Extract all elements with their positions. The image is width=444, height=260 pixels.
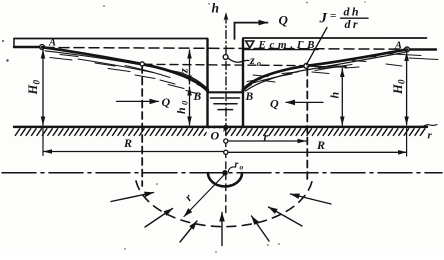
O label background (207, 129, 224, 141)
svg-text:r: r (264, 130, 269, 144)
R dimension right (229, 151, 407, 153)
shading dash left 2b (108, 69, 130, 72)
hatching (aquiclude) (15, 128, 425, 136)
curve-casing junction right (243, 84, 251, 90)
shading dash left 1 (60, 55, 78, 57)
plan centerline dash-dot (2, 172, 442, 174)
svg-text:R: R (123, 136, 132, 150)
svg-text:Q: Q (270, 97, 279, 111)
well casing left (206, 39, 208, 127)
shading dash left 3c (186, 91, 198, 95)
echo curve right 3 (315, 65, 352, 71)
depression curve left (42, 47, 208, 91)
R extension left (42, 129, 44, 156)
nabla marker (246, 41, 254, 48)
svg-text:=: = (330, 10, 336, 22)
curve point circle right (304, 64, 309, 69)
svg-text:J: J (319, 11, 328, 27)
svg-text:0: 0 (32, 80, 42, 85)
flow arrow A5 (252, 216, 270, 241)
chord dashed level (144, 64, 304, 65)
ground break squiggle (423, 125, 437, 127)
shading dash right B2 (263, 81, 275, 83)
z dimension line (189, 50, 191, 84)
shading dash right A1 (384, 54, 421, 56)
static water level solid right (409, 48, 437, 50)
well water shading row3 (218, 109, 233, 111)
shading dash right A3 (386, 64, 402, 66)
svg-text:o: o (240, 163, 244, 172)
shading dash left 3 (160, 80, 175, 84)
R extension right (406, 128, 408, 156)
svg-text:Q: Q (279, 13, 289, 28)
shading dash mid right (312, 72, 329, 74)
static level dashed line (Ест.ГВ) (44, 48, 407, 50)
svg-text:A: A (394, 41, 402, 52)
curve point circle left (140, 62, 144, 66)
H0 left dimension (42, 50, 44, 125)
well water shading row1b (227, 97, 240, 99)
node A right circle (405, 47, 410, 52)
leader J formula (307, 28, 328, 65)
well water shading row2 (214, 103, 237, 105)
svg-text:o: o (257, 59, 261, 68)
svg-text:r: r (183, 192, 195, 204)
echo curve right 1 (246, 52, 406, 91)
svg-text:O: O (211, 129, 220, 143)
z0 circle (223, 55, 228, 60)
R dimension left (44, 151, 224, 153)
svg-text:h: h (328, 92, 342, 99)
ground surface line right (243, 37, 427, 39)
shading dash right m4 (318, 67, 338, 69)
flow arrow A2 (145, 209, 173, 228)
R dim circle on axis (224, 150, 228, 154)
static water level solid left (14, 46, 40, 48)
well plan semicircle (208, 173, 242, 186)
svg-text:B: B (245, 91, 254, 103)
axis below ground dashed (225, 129, 227, 213)
well plan dot (222, 170, 228, 176)
shading dash left 2c (135, 75, 155, 79)
Q left arrow (117, 100, 159, 102)
h axis dash-dot (225, 15, 227, 127)
h axis arrowhead (224, 12, 229, 21)
shading dash right B1 (253, 75, 268, 77)
axis ground dot (223, 125, 228, 130)
shading dash right B1b (247, 79, 261, 82)
r' dim circle on axis (224, 139, 228, 143)
flow arrow A1 (111, 193, 154, 202)
flow arrow A4 (221, 213, 223, 246)
shading dash right B1c (282, 72, 298, 74)
shading dash mid right 3 (352, 61, 366, 62)
shading dash left 3b (168, 85, 184, 89)
svg-text:0: 0 (397, 79, 407, 84)
dashed vertical right (306, 69, 308, 181)
radius r arrow (184, 175, 225, 217)
Est.GV underline (244, 49, 319, 51)
H0 right dimension (406, 53, 408, 125)
well water shading row1a (211, 97, 225, 99)
svg-text:r: r (235, 160, 239, 171)
flow arrow A3 (180, 221, 197, 242)
depression curve right (243, 50, 407, 91)
svg-text:h: h (212, 1, 220, 16)
z0 leader (228, 58, 249, 62)
r' dimension line (229, 140, 307, 142)
svg-text:r: r (428, 130, 433, 142)
h dimension extension (307, 66, 347, 67)
r0 hook leader (229, 167, 235, 172)
h dimension line (341, 69, 343, 126)
echo curve left 1 (45, 51, 206, 87)
ground line (14, 126, 427, 129)
node A left circle (40, 45, 45, 50)
dashed vertical left (141, 66, 143, 186)
discharge pipe (235, 23, 268, 39)
shading dash left 2 (95, 63, 115, 66)
echo curve right 2 (250, 74, 292, 84)
svg-text:Q: Q (162, 95, 171, 109)
shading dash right m6 (345, 67, 359, 68)
flow arrow A7 (291, 194, 332, 204)
shading dash right A2 (409, 58, 438, 60)
hatching (15, 128, 425, 136)
svg-text:R: R (316, 138, 325, 152)
svg-text:z: z (177, 68, 191, 74)
h0 dimension line (189, 87, 191, 125)
shading dash left 1b (50, 58, 72, 61)
shading dash mid right 2 (330, 66, 346, 67)
svg-text:A: A (48, 38, 56, 49)
svg-text:z: z (249, 53, 255, 67)
dashed circle (plan) (136, 179, 313, 227)
left edge tick (13, 39, 15, 48)
echo curve left 3 (125, 66, 170, 78)
svg-text:d r: d r (345, 17, 358, 31)
well water level (208, 91, 244, 93)
shading dash right m5 (360, 57, 376, 58)
flow arrow A6 (269, 207, 303, 226)
echo curve left 2 (78, 59, 153, 73)
fraction bar dh/dr (341, 17, 369, 19)
svg-text:h: h (174, 107, 188, 114)
well casing right (242, 39, 244, 127)
noise specks (103, 5, 105, 7)
Q right arrow (286, 101, 323, 103)
ground surface line left (14, 38, 208, 40)
svg-text:B: B (193, 91, 202, 103)
svg-text:0: 0 (180, 100, 190, 105)
curve-casing junction left (198, 84, 208, 91)
